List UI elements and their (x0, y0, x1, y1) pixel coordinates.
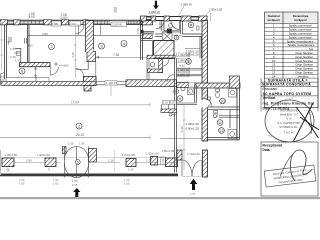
table header text (267, 14, 309, 22)
vertical dim line corridor (183, 105, 186, 170)
door jamb ticks b (25, 38, 27, 44)
svg-text:Ing. Pregoeanu Klaudiu Oct: Ing. Pregoeanu Klaudiu Oct (263, 101, 315, 105)
labels 2.35x1.20 stack (186, 122, 200, 131)
tiny dim texts room 6 (10, 47, 21, 63)
corridor wall left of block (151, 41, 153, 59)
svg-text:1.50: 1.50 (64, 64, 70, 68)
wc south wall (155, 34, 207, 37)
top wall pier 8 (142, 20, 153, 25)
room number 4 (121, 41, 127, 47)
partition y48 (185, 48, 200, 50)
door arc top wall (75, 25, 84, 35)
left wing exterior top wall (0, 20, 153, 24)
svg-text:1: 1 (188, 60, 190, 64)
tall interior pier (86, 21, 94, 52)
room 10 (220, 98, 226, 104)
bottom stamp rotated (264, 165, 316, 187)
svg-text:1.65: 1.65 (72, 183, 78, 187)
vertical dim line room6 (35, 67, 37, 78)
svg-text:Data :: Data : (263, 148, 272, 152)
svg-text:1.65: 1.65 (19, 182, 25, 186)
wall x88 (87, 62, 89, 70)
svg-text:1.950 W: 1.950 W (149, 10, 160, 14)
svg-text:1.77: 1.77 (146, 159, 152, 163)
toilet c (214, 111, 218, 118)
hall north wall thin part (96, 82, 126, 85)
fixture circle small (213, 114, 216, 117)
svg-text:1.090.30: 1.090.30 (178, 53, 190, 57)
svg-text:Seria B Nr. 177: Seria B Nr. 177 (280, 113, 299, 117)
svg-text:4.95: 4.95 (42, 32, 48, 36)
svg-text:SUPRAFAȚĂ CONSTRUITĂ: SUPRAFAȚĂ CONSTRUITĂ (262, 82, 311, 87)
texts below piers (4, 168, 134, 173)
labels 2.35x1.20 upper stack (186, 49, 200, 56)
svg-text:1.70x2.40: 1.70x2.40 (187, 152, 200, 156)
bottom gray streak (0, 197, 320, 199)
bottom wall wide part (207, 138, 240, 140)
valve symbol corridor (169, 113, 172, 116)
svg-text:Recepționat: Recepționat (263, 143, 283, 147)
wc partition (180, 21, 182, 35)
svg-text:0.30: 0.30 (170, 102, 175, 105)
top wall corner pier (199, 16, 208, 21)
svg-text:4: 4 (123, 42, 125, 46)
stair shaft label boxes (163, 101, 170, 105)
top wall pier r2b (164, 16, 169, 21)
junction hatch right (143, 34, 152, 39)
washbasin lower room (228, 130, 237, 139)
svg-text:1.50x1.50: 1.50x1.50 (162, 149, 175, 153)
partition line y69 (76, 68, 89, 70)
entrance circle symbol (75, 160, 80, 165)
receptionat box (261, 142, 318, 196)
top wall pier 3 (44, 20, 52, 25)
hall north wall hatched pier c (126, 80, 177, 87)
toilet b (207, 97, 211, 105)
top wall pier 4 (62, 20, 69, 25)
stair shaft hatched band (161, 109, 177, 113)
svg-text:1.70: 1.70 (190, 192, 196, 196)
round stamp (265, 100, 314, 142)
bottom pier 2 (45, 158, 56, 167)
table data names (287, 24, 315, 79)
pier gap filler (86, 49, 94, 52)
top wall pier r3 (181, 16, 191, 21)
window label 1.950W a (149, 10, 160, 14)
partition y31 vestibule (164, 31, 180, 32)
svg-text:0.90x1.20: 0.90x1.20 (186, 126, 200, 130)
svg-text:încăperii: încăperii (293, 18, 307, 22)
door jamb ticks a (9, 37, 11, 43)
hall north wall hatched band (1, 82, 96, 86)
door gap in hatched wall (202, 100, 209, 108)
stair hatch block (154, 41, 175, 59)
bay verticals (78, 24, 100, 35)
bottom window labels (5, 149, 201, 157)
svg-text:10: 10 (113, 10, 117, 14)
svg-text:8: 8 (176, 36, 178, 40)
dark fixture blob (167, 29, 172, 34)
washbasin square small (188, 88, 195, 95)
main entrance jamb left (62, 147, 66, 154)
svg-text:1.50: 1.50 (79, 142, 85, 146)
room number 2 (49, 44, 55, 50)
corridor wall bottom of stair (154, 57, 175, 59)
tick marks below top wall (7, 41, 10, 45)
left vertical dimension line (0, 22, 3, 70)
svg-text:1.50: 1.50 (4, 169, 10, 173)
door line wc (172, 35, 183, 37)
svg-text:2: 2 (50, 45, 52, 49)
thin line y138 (160, 138, 202, 140)
stamp signature strokes (294, 103, 320, 141)
top dimension texts (28, 7, 117, 21)
svg-text:1.16: 1.16 (108, 159, 114, 163)
bottom entrance arcs (182, 160, 202, 176)
svg-text:7.35: 7.35 (113, 53, 119, 57)
main entrance jamb right (89, 149, 97, 163)
svg-text:1.65: 1.65 (124, 182, 130, 186)
door arc right of wall (203, 98, 212, 107)
top wall pier r2 (151, 16, 156, 21)
door arc room 6 (50, 67, 58, 75)
vertical hatched wall x202 upper (202, 21, 208, 84)
partition y75 (177, 75, 203, 76)
small fixture rect (17, 52, 21, 56)
svg-text:AUTORIZATIE: AUTORIZATIE (280, 109, 298, 113)
vestibule wall (162, 21, 164, 31)
top wall window cell (147, 18, 152, 20)
svg-text:c l s: c l s (287, 117, 292, 121)
right wall lower wide part (237, 88, 240, 140)
partition wall room 6 (28, 24, 30, 62)
bottom wall outer face (0, 174, 178, 177)
toilet in room 10 (216, 89, 220, 98)
svg-text:SYSTEM S.R.L.: SYSTEM S.R.L. (279, 125, 299, 129)
door arc top single (171, 21, 180, 30)
svg-text:1.50: 1.50 (136, 28, 140, 34)
room number 1 mid (186, 59, 192, 65)
L wall in room8 (159, 59, 163, 73)
svg-text:1.100.30: 1.100.30 (106, 81, 117, 85)
washbasin wide room (229, 89, 237, 98)
svg-text:2.95x1.50: 2.95x1.50 (209, 7, 223, 11)
svg-text:1.08x...: 1.08x... (52, 22, 61, 26)
washbasin circle below wall (173, 89, 178, 94)
tiny cross mark (54, 62, 58, 66)
bottom pier 1 (2, 158, 14, 167)
partition y108 (208, 107, 240, 109)
right wing bottom right wall (203, 150, 208, 177)
bottom dimension line (15, 162, 177, 164)
room number 3 (99, 43, 105, 49)
horizontal hatched wall y84 right part (195, 83, 240, 88)
svg-text:2.96: 2.96 (26, 159, 32, 163)
svg-text:1.10: 1.10 (163, 102, 168, 105)
room 12 (219, 128, 225, 134)
main entrance arrow (up) (73, 188, 80, 198)
stair block bottom bar (147, 55, 175, 59)
svg-text:4.30: 4.30 (71, 52, 75, 58)
svg-text:S.C. KAPRA TOPO: S.C. KAPRA TOPO (277, 121, 300, 125)
opening label on hall wall (105, 81, 117, 86)
vertical dim line room2 (74, 26, 77, 78)
north entrance arrow (solid black, pointing down) (153, 1, 159, 9)
stamp ring text (268, 95, 296, 146)
svg-text:12: 12 (220, 129, 224, 133)
small partition x20 L (16, 49, 21, 63)
svg-text:2.10x...: 2.10x... (70, 22, 79, 26)
svg-text:1.50: 1.50 (128, 168, 134, 172)
top wall label box mid (111, 22, 127, 26)
svg-text:11: 11 (218, 121, 222, 125)
partition y68 (177, 69, 203, 71)
door arc room8 (163, 59, 170, 66)
thick interior wall y63 (20, 63, 51, 67)
dark fixture block left (141, 30, 144, 34)
room number 7 (188, 22, 194, 28)
texts below bottom wall (19, 178, 130, 186)
interior pier mid (87, 52, 96, 62)
room number 1 hall (76, 123, 82, 129)
svg-text:1.65: 1.65 (53, 182, 59, 186)
corridor wall x195 (195, 85, 197, 102)
bottom pier 5 (166, 158, 178, 167)
table data rows (265, 27, 319, 78)
top wall pier r1 (141, 16, 147, 21)
bottom window cell (158, 157, 166, 165)
exterior steps left (1, 73, 5, 86)
small circle number by wall (181, 87, 185, 91)
corner pier X square (230, 76, 240, 88)
room8b circle (150, 63, 154, 67)
svg-text:Executant: Executant (263, 87, 278, 91)
door arc at cluster (76, 69, 84, 77)
executant block side borders (261, 78, 318, 111)
partition below vestibule (141, 39, 153, 41)
room number 6 (19, 68, 25, 74)
partition y31.5 (144, 31, 154, 33)
partition y116 (219, 116, 240, 118)
svg-text:17.04: 17.04 (71, 100, 79, 104)
svg-text:3.00: 3.00 (28, 15, 34, 19)
svg-text:3: 3 (100, 45, 102, 49)
svg-text:9: 9 (179, 97, 181, 101)
window label 2.95x1.50 (209, 7, 223, 11)
svg-text:5: 5 (77, 160, 79, 164)
svg-text:Verificat: Verificat (263, 96, 277, 100)
svg-text:1.90x1.50: 1.90x1.50 (37, 153, 50, 157)
svg-text:2.35x1.20: 2.35x1.20 (186, 122, 200, 126)
svg-text:1.950 W: 1.950 W (181, 3, 192, 7)
door gap label on wall (189, 83, 196, 87)
partition y103.5 (177, 103, 198, 104)
room 9 (177, 96, 183, 102)
wall line x96 (95, 62, 97, 82)
bottom wall top line (2, 157, 178, 159)
svg-text:T A C H I: T A C H I (284, 131, 295, 135)
outer corner line (210, 13, 212, 21)
vertical hatched wall x202 lower (202, 88, 208, 141)
svg-text:4.10: 4.10 (179, 64, 185, 68)
bottom entrance right wing: jamb (177, 150, 182, 160)
wall x200 upper (200, 37, 202, 59)
window labels stack upper right room (178, 53, 190, 77)
thin line after arc (58, 65, 66, 67)
top wall pier 5 small (83, 20, 88, 25)
top wall pier 2 (14, 20, 21, 25)
entrance labels (68, 142, 85, 188)
top wall window label box b (70, 21, 81, 26)
stair shaft verticals (162, 104, 169, 109)
dimension line 7.35 (96, 56, 152, 58)
main entrance butterfly doors (65, 147, 89, 178)
stamp inner text (277, 109, 300, 135)
room 11 (217, 120, 223, 126)
long corridor wall (175, 58, 177, 173)
partition x230 (229, 109, 231, 128)
hall crease line 17.04 (0, 104, 150, 106)
svg-text:1.05: 1.05 (28, 44, 34, 48)
top entrance door arc (156, 21, 164, 30)
right wing top wall (141, 17, 208, 21)
vertical extension line x114 (113, 150, 115, 172)
small circle fixture (169, 24, 173, 28)
room number 8 (174, 35, 179, 40)
hall crease line 20.10 (0, 137, 150, 139)
svg-text:10: 10 (221, 100, 225, 104)
signature oval (280, 150, 313, 181)
svg-text:1.52x1.50: 1.52x1.50 (122, 153, 135, 157)
svg-text:1.50: 1.50 (68, 142, 74, 146)
horizontal hatched wall y84 left part (177, 83, 189, 88)
svg-text:1.52x1.50: 1.52x1.50 (146, 151, 159, 155)
svg-text:20.10: 20.10 (76, 133, 84, 137)
left exterior wall (5, 24, 7, 79)
bottom pier 3 (126, 159, 136, 167)
room8 west wall (147, 59, 149, 80)
svg-text:1.20: 1.20 (15, 59, 21, 63)
door arc corridor to hall (167, 75, 175, 83)
svg-text:3.00: 3.00 (60, 16, 66, 20)
toilet fixture a (191, 26, 199, 31)
white cells above band (6, 78, 36, 82)
right wing entrance arrow (190, 179, 197, 190)
svg-text:1: 1 (78, 125, 80, 129)
interior L wall cluster (84, 77, 97, 92)
svg-text:încăperii: încăperii (267, 18, 281, 22)
top wall pier 1 corner (0, 20, 8, 25)
svg-text:2.100 W: 2.100 W (112, 23, 122, 27)
window label 1.950W b (181, 3, 192, 7)
svg-text:1.90x1.50: 1.90x1.50 (5, 153, 18, 157)
right wing left wall (141, 17, 143, 61)
washbasin square with X (162, 32, 172, 41)
entrance threshold line (182, 175, 202, 177)
svg-text:6: 6 (21, 70, 23, 74)
table data numbers (272, 24, 276, 79)
top wall window label box a (52, 21, 62, 26)
interior line y35.4 (28, 34, 142, 36)
bottom pier 4 (151, 157, 158, 166)
top wall windows double lines (8, 20, 143, 24)
top wall window r (191, 18, 199, 20)
svg-text:5.35: 5.35 (180, 126, 184, 132)
